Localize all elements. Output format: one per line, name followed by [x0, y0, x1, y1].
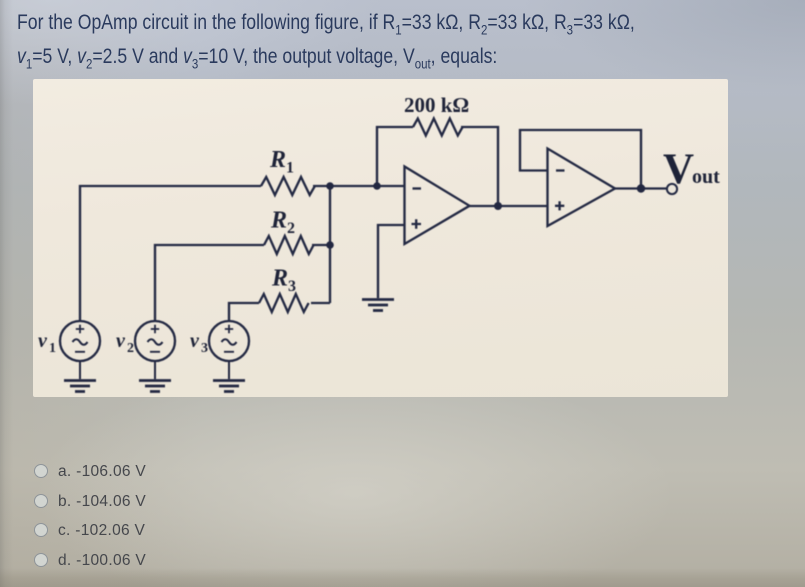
svg-text:v: v: [116, 330, 126, 352]
svg-text:2: 2: [127, 341, 134, 356]
svg-text:V: V: [663, 146, 694, 193]
svg-text:200 kΩ: 200 kΩ: [404, 93, 469, 117]
svg-text:1: 1: [49, 341, 56, 356]
svg-text:2: 2: [287, 220, 295, 237]
svg-text:3: 3: [201, 341, 208, 356]
svg-text:out: out: [692, 166, 720, 188]
svg-text:3: 3: [288, 278, 296, 295]
svg-text:R: R: [270, 208, 287, 234]
svg-text:R: R: [269, 147, 286, 173]
svg-text:v: v: [38, 330, 48, 352]
svg-text:R: R: [271, 266, 288, 292]
svg-text:1: 1: [286, 160, 294, 177]
svg-text:v: v: [190, 330, 200, 352]
